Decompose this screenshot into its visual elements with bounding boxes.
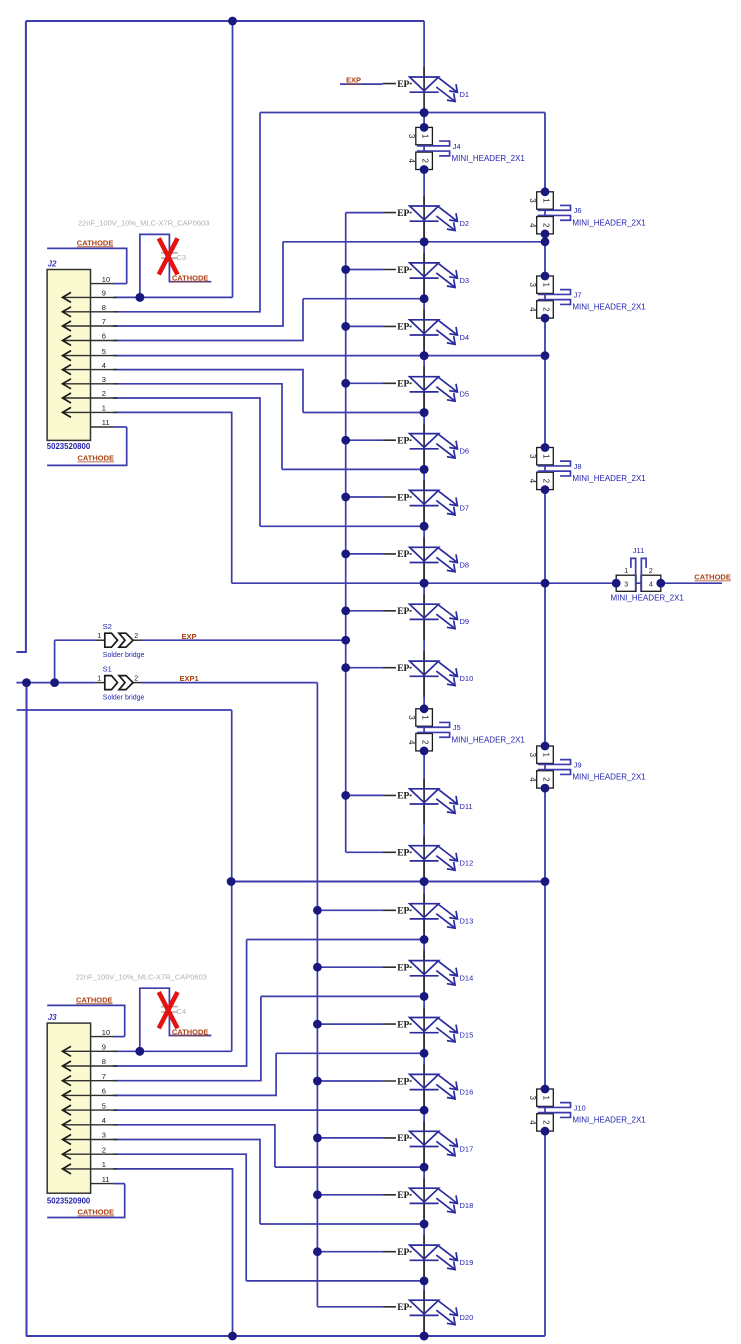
svg-text:2: 2: [102, 1145, 106, 1154]
node CATHODE line right of J11: [661, 582, 722, 584]
svg-text:4: 4: [528, 777, 537, 782]
wire J3 pin3 row: [113, 1140, 260, 1225]
svg-text:EP: EP: [397, 323, 409, 333]
svg-text:8: 8: [102, 1057, 106, 1066]
wire J3 pin11 CATHODE loop: [47, 1184, 125, 1218]
LED D11: [346, 794, 383, 796]
svg-text:J4: J4: [453, 142, 461, 151]
wire J2 pin7 row: [113, 242, 283, 326]
svg-text:EP: EP: [397, 1077, 409, 1087]
wire J3 pin8 row: [113, 940, 247, 1067]
svg-text:CATHODE: CATHODE: [78, 454, 115, 463]
svg-text:4: 4: [102, 361, 106, 370]
svg-text:3: 3: [528, 198, 537, 203]
svg-text:1: 1: [102, 404, 106, 413]
svg-text:J2: J2: [48, 260, 57, 269]
wire J2 pin9 riser to top: [232, 21, 234, 297]
svg-text:1: 1: [420, 715, 429, 720]
svg-text:4: 4: [528, 223, 537, 228]
connector J4 MINI_HEADER_2X1: [423, 127, 425, 169]
svg-text:6: 6: [102, 332, 106, 341]
wire LED column lower: [423, 882, 425, 1337]
svg-text:8: 8: [102, 303, 106, 312]
svg-text:J8: J8: [574, 462, 582, 471]
node D19 cathode tap: [246, 1280, 424, 1282]
wire lower-left border: [26, 683, 28, 1336]
svg-text:1: 1: [97, 675, 101, 682]
svg-text:J7: J7: [574, 290, 582, 299]
solder bridge S2: [95, 639, 105, 641]
node D6 cathode tap: [282, 468, 424, 470]
node D3 cathode tap: [303, 298, 424, 300]
svg-text:EP: EP: [397, 849, 409, 859]
node D2 cathode bus: [283, 241, 545, 243]
svg-text:2: 2: [134, 675, 138, 682]
svg-text:S1: S1: [103, 665, 112, 674]
wire J2 pin6 row: [113, 299, 303, 341]
svg-text:1: 1: [420, 134, 429, 139]
svg-text:10: 10: [102, 1028, 110, 1037]
svg-text:EP: EP: [397, 1020, 409, 1030]
svg-text:MINI_HEADER_2X1: MINI_HEADER_2X1: [572, 773, 646, 782]
svg-text:J5: J5: [453, 723, 461, 732]
connector J9 MINI_HEADER_2X1: [544, 746, 546, 788]
wire J3 pin6 row: [113, 1053, 276, 1095]
svg-text:EP: EP: [397, 964, 409, 974]
svg-text:3: 3: [528, 1095, 537, 1100]
svg-text:9: 9: [102, 1043, 106, 1052]
node EXP1 wire from S1: [142, 682, 318, 684]
svg-text:D8: D8: [460, 560, 470, 569]
svg-text:1: 1: [541, 282, 550, 287]
wire J3 pin4 row: [113, 1125, 275, 1167]
wire J2 pin3 row: [113, 384, 282, 470]
svg-text:1: 1: [541, 198, 550, 203]
wire J3 pin9 stub row: [17, 709, 232, 711]
svg-text:7: 7: [102, 317, 106, 326]
LED D3: [346, 269, 383, 271]
node D12/D13 chain bus: [231, 881, 545, 883]
svg-text:4: 4: [528, 307, 537, 312]
svg-text:EP: EP: [397, 493, 409, 503]
svg-text:CATHODE: CATHODE: [77, 238, 114, 247]
svg-text:1: 1: [541, 752, 550, 757]
connector J6 MINI_HEADER_2X1: [544, 192, 546, 234]
svg-text:7: 7: [102, 1072, 106, 1081]
node EXP1 anode bus: [316, 683, 318, 1307]
LED D6: [346, 439, 383, 441]
svg-text:EP: EP: [397, 1134, 409, 1144]
svg-text:D1: D1: [460, 90, 470, 99]
wire J3 pin9 row: [113, 1050, 232, 1052]
svg-text:1: 1: [97, 633, 101, 640]
svg-text:1: 1: [541, 454, 550, 459]
LED D16: [317, 1080, 382, 1082]
svg-text:3: 3: [407, 134, 416, 139]
svg-text:2: 2: [420, 740, 429, 745]
svg-text:D13: D13: [460, 917, 474, 926]
svg-text:S2: S2: [103, 622, 112, 631]
wire J2 pin8 row: [113, 113, 260, 312]
wire LED column upper: [423, 169, 425, 709]
svg-text:2: 2: [541, 223, 550, 228]
svg-text:5023520900: 5023520900: [47, 1197, 91, 1206]
svg-text:D19: D19: [460, 1258, 474, 1267]
wire J3 pin9 riser: [231, 710, 233, 1051]
wire J3 pin1 row: [113, 1169, 233, 1336]
node D15 cathode tap: [276, 1052, 424, 1054]
svg-text:EP: EP: [397, 664, 409, 674]
svg-text:3: 3: [102, 375, 106, 384]
svg-text:2: 2: [541, 479, 550, 484]
wire J2 pin11 CATHODE loop: [47, 427, 127, 465]
svg-text:11: 11: [102, 418, 110, 427]
LED D8: [346, 553, 383, 555]
LED D12: [346, 851, 383, 853]
svg-text:EP: EP: [397, 607, 409, 617]
wire D1 cathode to J4: [423, 113, 425, 128]
svg-text:3: 3: [528, 454, 537, 459]
svg-text:3: 3: [624, 581, 628, 588]
svg-text:EP: EP: [397, 1248, 409, 1258]
svg-text:1: 1: [102, 1160, 106, 1169]
svg-text:CATHODE: CATHODE: [76, 995, 113, 1004]
LED D7: [346, 496, 383, 498]
node D13 cathode tap: [247, 939, 425, 941]
svg-text:11: 11: [102, 1175, 110, 1184]
svg-text:D17: D17: [460, 1144, 474, 1153]
node D5 cathode tap: [303, 412, 424, 414]
wire top net J2.9/D1 anode: [26, 20, 424, 22]
wire right jumper bus: [544, 113, 546, 1337]
svg-text:EXP: EXP: [346, 76, 361, 85]
svg-text:EP: EP: [397, 1303, 409, 1313]
svg-text:1: 1: [541, 1095, 550, 1100]
svg-text:4: 4: [407, 159, 416, 164]
svg-text:2: 2: [541, 777, 550, 782]
svg-text:EP: EP: [397, 907, 409, 917]
svg-text:D16: D16: [460, 1087, 474, 1096]
svg-text:EP: EP: [397, 209, 409, 219]
svg-text:C3: C3: [177, 253, 187, 262]
LED D4: [346, 325, 383, 327]
wire J2 pin10 CATHODE loop: [47, 248, 127, 283]
svg-text:MINI_HEADER_2X1: MINI_HEADER_2X1: [611, 594, 685, 603]
wire J2 pin9 row: [113, 296, 233, 298]
svg-text:5: 5: [102, 347, 106, 356]
LED D1: [383, 83, 412, 85]
node D17 cathode tap: [275, 1166, 424, 1168]
svg-text:EP: EP: [397, 437, 409, 447]
svg-text:4: 4: [407, 740, 416, 745]
wire bottom net: [26, 1335, 545, 1337]
wire LED column mid: [423, 751, 425, 882]
svg-text:D5: D5: [460, 390, 470, 399]
wire left border: [16, 21, 26, 652]
svg-text:J11: J11: [633, 546, 645, 555]
wire S2 pin1 branch: [55, 640, 96, 682]
svg-text:2: 2: [420, 159, 429, 164]
svg-text:4: 4: [528, 479, 537, 484]
node D18 cathode tap: [260, 1223, 424, 1225]
svg-text:MINI_HEADER_2X1: MINI_HEADER_2X1: [572, 474, 646, 483]
wire J3 pin2 row: [113, 1154, 246, 1281]
svg-text:2: 2: [134, 633, 138, 640]
svg-text:D10: D10: [460, 674, 474, 683]
svg-text:D18: D18: [460, 1201, 474, 1210]
connector J2 5023520800: [47, 270, 90, 441]
svg-text:EXP: EXP: [182, 632, 197, 641]
wire S2 pin2 to EXP bus: [142, 639, 346, 641]
svg-text:D14: D14: [460, 974, 474, 983]
capacitor C3 (DNI): [140, 234, 170, 297]
svg-text:J6: J6: [574, 206, 582, 215]
svg-text:MINI_HEADER_2X1: MINI_HEADER_2X1: [572, 218, 646, 227]
svg-text:D11: D11: [460, 802, 473, 811]
wire EXP stub at D1: [340, 83, 383, 85]
LED D17: [317, 1137, 382, 1139]
svg-text:1: 1: [624, 568, 628, 575]
LED D19: [317, 1251, 382, 1253]
svg-text:MINI_HEADER_2X1: MINI_HEADER_2X1: [572, 1116, 646, 1125]
DNI cross over C3: [159, 238, 178, 274]
DNI cross over C4: [159, 992, 178, 1028]
LED D13: [317, 909, 382, 911]
wire D1 anode drop: [423, 21, 425, 77]
svg-text:EXP1: EXP1: [180, 674, 199, 683]
svg-text:EP: EP: [397, 550, 409, 560]
LED D14: [317, 966, 382, 968]
node D16 cathode / J3 pin5 row: [113, 1109, 424, 1111]
wire J3 pin10 CATHODE loop: [47, 1005, 125, 1036]
node D4 cathode / J2 pin5 row: [113, 355, 545, 357]
svg-text:4: 4: [102, 1116, 106, 1125]
svg-text:D20: D20: [460, 1313, 474, 1322]
svg-text:D15: D15: [460, 1031, 474, 1040]
svg-text:EP: EP: [397, 266, 409, 276]
connector J3 5023520900: [47, 1023, 90, 1193]
svg-text:3: 3: [102, 1131, 106, 1140]
wire J2 pin1 row: [113, 412, 232, 583]
svg-text:D3: D3: [460, 276, 470, 285]
svg-text:Solder bridge: Solder bridge: [103, 694, 145, 701]
svg-text:2: 2: [649, 568, 653, 575]
svg-text:Solder bridge: Solder bridge: [103, 652, 145, 659]
solder bridge S1: [95, 682, 105, 684]
capacitor C4 (DNI): [140, 988, 170, 1051]
svg-text:D7: D7: [460, 503, 470, 512]
LED D18: [317, 1194, 382, 1196]
svg-text:5023520800: 5023520800: [47, 442, 91, 451]
svg-text:EP: EP: [397, 80, 409, 90]
svg-text:EP: EP: [397, 1191, 409, 1201]
svg-text:CATHODE: CATHODE: [78, 1208, 115, 1217]
svg-text:3: 3: [528, 282, 537, 287]
node CATHODE line left of J11: [232, 582, 617, 584]
svg-text:10: 10: [102, 275, 110, 284]
connector J8 MINI_HEADER_2X1: [544, 448, 546, 490]
svg-text:2: 2: [541, 307, 550, 312]
svg-text:3: 3: [407, 715, 416, 720]
LED D15: [317, 1023, 382, 1025]
svg-text:EP: EP: [397, 380, 409, 390]
svg-text:9: 9: [102, 289, 106, 298]
node D14 cathode tap: [261, 995, 424, 997]
svg-text:MINI_HEADER_2X1: MINI_HEADER_2X1: [452, 154, 526, 163]
wire J3 pin7 row: [113, 996, 261, 1080]
wire J2 pin2 row: [113, 398, 260, 526]
svg-text:J3: J3: [48, 1013, 57, 1022]
svg-text:MINI_HEADER_2X1: MINI_HEADER_2X1: [452, 735, 526, 744]
connector J11 MINI_HEADER_2X1: [616, 582, 661, 584]
svg-text:D2: D2: [460, 219, 470, 228]
svg-text:MINI_HEADER_2X1: MINI_HEADER_2X1: [572, 303, 646, 312]
svg-text:CATHODE: CATHODE: [172, 1027, 209, 1036]
LED D10: [346, 667, 383, 669]
svg-text:J9: J9: [574, 760, 582, 769]
svg-text:4: 4: [649, 581, 653, 588]
svg-text:J10: J10: [574, 1103, 586, 1112]
svg-text:3: 3: [528, 752, 537, 757]
LED D5: [346, 382, 383, 384]
connector J10 MINI_HEADER_2X1: [544, 1089, 546, 1131]
node EXP anode bus: [345, 213, 347, 853]
svg-text:2: 2: [102, 389, 106, 398]
svg-text:6: 6: [102, 1087, 106, 1096]
svg-text:CATHODE: CATHODE: [172, 273, 209, 282]
connector J7 MINI_HEADER_2X1: [544, 276, 546, 318]
node D1 cathode bus: [260, 112, 545, 114]
svg-text:EP: EP: [397, 792, 409, 802]
svg-text:5: 5: [102, 1101, 106, 1110]
svg-text:D6: D6: [460, 447, 470, 456]
LED D20: [317, 1306, 382, 1308]
junction dots: [228, 17, 237, 26]
svg-text:D12: D12: [460, 859, 474, 868]
connector J5 MINI_HEADER_2X1: [423, 709, 425, 751]
svg-text:C4: C4: [177, 1007, 187, 1016]
wire J2 pin4 row: [113, 370, 303, 413]
wire S1 pin1 row: [16, 682, 95, 684]
LED D9: [346, 610, 383, 612]
svg-text:D4: D4: [460, 333, 470, 342]
LED D2: [346, 212, 383, 214]
node D7 cathode tap: [260, 525, 424, 527]
svg-text:CATHODE: CATHODE: [694, 573, 731, 582]
svg-text:D9: D9: [460, 617, 470, 626]
svg-text:22nF_100V_10%_MLC-X7R_CAP0603: 22nF_100V_10%_MLC-X7R_CAP0603: [76, 973, 207, 982]
svg-text:22nF_100V_10%_MLC-X7R_CAP0603: 22nF_100V_10%_MLC-X7R_CAP0603: [78, 219, 209, 228]
svg-text:2: 2: [541, 1120, 550, 1125]
svg-text:4: 4: [528, 1120, 537, 1125]
